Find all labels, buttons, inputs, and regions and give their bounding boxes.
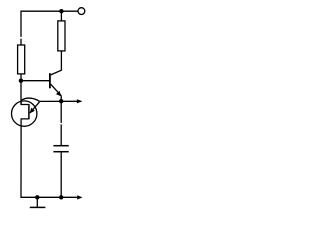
resistor R2 — [58, 21, 65, 51]
transistor Q2 envelope circle — [12, 101, 37, 126]
capacitor C1 top plate — [53, 145, 68, 147]
node junction top — [59, 9, 63, 13]
ground stub — [36, 197, 38, 207]
wire R1 to base node — [20, 74, 22, 105]
transistor Q2 base elbow top — [21, 102, 29, 105]
transistor Q2 base bar — [28, 104, 30, 119]
transistor Q1 emitter — [51, 84, 62, 96]
wire emitter rail to output arrow — [40, 100, 78, 102]
terminal output top — [78, 8, 85, 15]
arrow output bottom — [77, 195, 83, 199]
transistor Q2 emitter — [30, 102, 40, 113]
wire Q2 to bottom rail — [21, 126, 77, 197]
wire R2 to Q1 collector — [51, 51, 62, 75]
transistor Q1 emitter arrowhead — [56, 91, 62, 97]
node emitter junction — [59, 99, 63, 103]
transistor Q1 base bar — [49, 73, 51, 88]
ground bar — [30, 206, 46, 208]
capacitor C1 bottom plate — [53, 151, 68, 153]
wire capacitor to rail — [60, 152, 62, 197]
wire top rail V+ — [21, 11, 78, 37]
node ground junction — [35, 195, 39, 199]
arrow output mid — [77, 99, 83, 103]
node capacitor bottom junction — [59, 195, 63, 199]
node base junction — [19, 79, 23, 83]
wire Q1 base — [21, 80, 50, 82]
resistor R1 — [18, 45, 25, 74]
transistor Q2 collector elbow bottom — [21, 119, 29, 126]
wire capacitor mid segment — [60, 124, 62, 145]
wire R2 top lead — [60, 11, 62, 21]
wire left branch lower segment — [20, 39, 22, 46]
wire capacitor top segment — [60, 101, 62, 123]
transistor Q2 emitter arrowhead — [30, 108, 35, 114]
wire hop over Q2 — [21, 98, 39, 101]
wire Q1 emitter to node — [60, 96, 62, 102]
